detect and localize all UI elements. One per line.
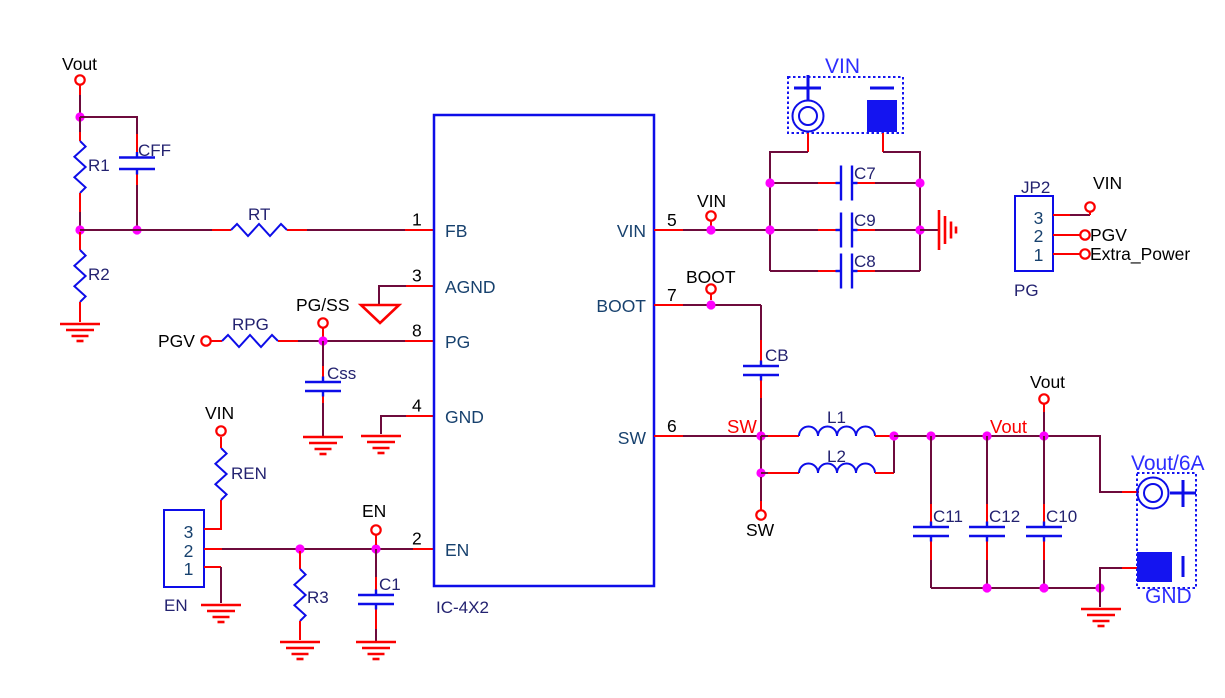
svg-text:Css: Css bbox=[327, 364, 356, 383]
pad square VIN- bbox=[867, 100, 897, 132]
svg-text:VIN: VIN bbox=[825, 55, 860, 78]
svg-text:C11: C11 bbox=[933, 507, 963, 526]
svg-text:L1: L1 bbox=[827, 408, 846, 427]
red stub into Vout jack bbox=[1122, 491, 1139, 493]
ground below pin4 bbox=[361, 436, 401, 453]
wire EN pin3 to REN bbox=[204, 500, 221, 529]
wire EN pin1 to ground bbox=[204, 567, 221, 603]
wire VIN- down bbox=[883, 133, 920, 271]
svg-text:Extra_Power: Extra_Power bbox=[1090, 244, 1190, 265]
wire SW down to L2 bbox=[760, 436, 762, 473]
svg-text:GND: GND bbox=[1145, 585, 1192, 608]
junction R3 node bbox=[295, 544, 304, 553]
junction rail C10 bbox=[1039, 431, 1048, 440]
svg-text:1: 1 bbox=[1034, 245, 1044, 265]
wire PGV to RPG bbox=[211, 340, 222, 342]
junction rail C12 bbox=[982, 431, 991, 440]
wire JP2 pin2 PGV bbox=[1053, 225, 1127, 245]
pin 1 FB bbox=[412, 210, 467, 242]
junction gnd tap bbox=[1095, 583, 1104, 592]
svg-text:C1: C1 bbox=[379, 575, 401, 594]
svg-text:SW: SW bbox=[746, 520, 775, 540]
svg-text:3: 3 bbox=[184, 522, 194, 542]
node PGV terminal bbox=[158, 331, 211, 351]
pad square GND bbox=[1137, 552, 1172, 582]
svg-text:5: 5 bbox=[667, 210, 677, 230]
wire RPG to pin PG bbox=[278, 340, 434, 342]
svg-text:7: 7 bbox=[667, 285, 677, 305]
wire ground rail bottom bbox=[931, 587, 1100, 589]
node EN terminal bbox=[362, 501, 386, 545]
junction rail L bbox=[926, 431, 935, 440]
capacitor C11 bbox=[913, 436, 963, 588]
svg-text:CFF: CFF bbox=[138, 141, 171, 160]
wire to CFF branch bbox=[80, 117, 137, 157]
junction PG node bbox=[318, 336, 327, 345]
node Vout terminal top-right bbox=[1030, 372, 1065, 436]
svg-text:8: 8 bbox=[412, 321, 422, 341]
node VIN terminal JP2 bbox=[1085, 173, 1122, 212]
resistor R3 bbox=[294, 551, 328, 640]
pin 7 BOOT bbox=[596, 285, 676, 316]
pin 5 VIN bbox=[617, 210, 677, 241]
svg-text:PG: PG bbox=[445, 332, 470, 352]
wire FB node to RT bbox=[80, 229, 231, 231]
connector Vout/6A block bbox=[1131, 452, 1205, 588]
svg-text:Vout: Vout bbox=[62, 54, 97, 74]
capacitor Css bbox=[305, 341, 356, 436]
svg-text:1: 1 bbox=[412, 210, 422, 230]
node BOOT terminal bbox=[686, 267, 736, 300]
svg-text:FB: FB bbox=[445, 221, 467, 241]
resistor R2 bbox=[74, 232, 109, 322]
node PG/SS terminal bbox=[296, 295, 350, 338]
resistor R1 bbox=[74, 117, 109, 230]
svg-text:L2: L2 bbox=[827, 447, 846, 466]
ground below R2 bbox=[60, 324, 100, 341]
wire to GND pad bbox=[1100, 568, 1139, 588]
svg-text:1: 1 bbox=[184, 559, 194, 579]
capacitor C9 bbox=[770, 211, 920, 248]
svg-text:GND: GND bbox=[445, 407, 484, 427]
junction FB node left bbox=[75, 225, 84, 234]
capacitor C1 bbox=[358, 549, 401, 641]
capacitor C12 bbox=[969, 436, 1020, 588]
svg-text:C12: C12 bbox=[989, 507, 1020, 526]
connector EN J1 bbox=[164, 510, 204, 615]
svg-text:R2: R2 bbox=[88, 265, 110, 284]
svg-text:2: 2 bbox=[1034, 226, 1044, 246]
svg-text:RT: RT bbox=[248, 205, 270, 224]
wire JP2 pin3 to VIN bbox=[1053, 212, 1090, 215]
wire Vout rail bbox=[894, 436, 1122, 492]
pin 4 GND bbox=[412, 396, 484, 428]
junction L2 node bbox=[756, 468, 765, 477]
junction BOOT bbox=[706, 300, 715, 309]
wire pin4 GND bbox=[381, 416, 434, 434]
minus symbol bbox=[870, 87, 894, 90]
wire SW down to terminal bbox=[760, 477, 762, 510]
svg-text:EN: EN bbox=[445, 540, 469, 560]
svg-text:PGV: PGV bbox=[158, 331, 195, 351]
node SW terminal bbox=[746, 510, 775, 540]
junction C1 node bbox=[371, 544, 380, 553]
AGND triangle symbol bbox=[361, 305, 399, 323]
pin 6 SW bbox=[618, 416, 677, 448]
wire pin7 BOOT row bbox=[654, 304, 761, 306]
junction C9 right bbox=[915, 225, 924, 234]
junction C7 left bbox=[765, 178, 774, 187]
resistor REN bbox=[215, 437, 267, 500]
ground below EN pin1 bbox=[201, 605, 241, 622]
ground below Css bbox=[303, 437, 343, 454]
svg-text:PGV: PGV bbox=[1090, 225, 1127, 245]
resistor RPG bbox=[222, 315, 278, 347]
wire pin3 AGND bbox=[379, 286, 434, 304]
wire pin5 VIN row bbox=[654, 229, 770, 231]
wire RT to pin FB bbox=[287, 229, 434, 231]
svg-text:3: 3 bbox=[412, 266, 422, 286]
svg-text:R3: R3 bbox=[307, 588, 329, 607]
junction L1 L2 output bbox=[889, 431, 898, 440]
jack circle VIN+ bbox=[793, 101, 824, 132]
svg-text:AGND: AGND bbox=[445, 277, 496, 297]
wire JP2 pin1 Extra_Power bbox=[1053, 244, 1190, 265]
minus symbol GND bbox=[1182, 556, 1185, 577]
svg-text:VIN: VIN bbox=[697, 191, 726, 211]
svg-text:3: 3 bbox=[1034, 208, 1044, 228]
junction C7 right bbox=[915, 178, 924, 187]
junction VIN bbox=[706, 225, 715, 234]
wire Vout to divider bbox=[79, 85, 81, 117]
node Vout terminal top-left bbox=[62, 54, 97, 85]
jack circle Vout bbox=[1138, 478, 1169, 509]
node VIN terminal pin5 bbox=[697, 191, 726, 226]
capacitor C10 bbox=[1026, 436, 1077, 588]
svg-text:VIN: VIN bbox=[617, 221, 646, 241]
svg-text:6: 6 bbox=[667, 416, 677, 436]
svg-text:JP2: JP2 bbox=[1021, 178, 1050, 197]
svg-text:RPG: RPG bbox=[232, 315, 269, 334]
svg-text:SW: SW bbox=[727, 416, 757, 437]
junction C9 left bbox=[765, 225, 774, 234]
inductor L1 bbox=[761, 408, 891, 436]
capacitor CB bbox=[743, 305, 789, 436]
svg-text:C8: C8 bbox=[854, 252, 876, 271]
svg-text:PG: PG bbox=[1014, 281, 1039, 300]
capacitor C8 bbox=[770, 252, 920, 289]
op-amp U1 IC-4X2 body bbox=[434, 115, 654, 617]
ground below rail bbox=[1081, 588, 1121, 626]
plus symbol bbox=[794, 75, 821, 101]
svg-text:Vout: Vout bbox=[990, 416, 1027, 437]
resistor RT bbox=[231, 205, 287, 236]
inductor L2 bbox=[761, 438, 894, 473]
svg-text:Vout/6A: Vout/6A bbox=[1131, 452, 1205, 475]
svg-text:CB: CB bbox=[765, 346, 789, 365]
junction gnd C10 bbox=[1039, 583, 1048, 592]
connector VIN input block bbox=[788, 55, 903, 133]
earth ground right of C9 bbox=[939, 210, 956, 250]
connector JP2 bbox=[1014, 178, 1053, 300]
svg-text:PG/SS: PG/SS bbox=[296, 295, 350, 315]
wire to earth ground bbox=[920, 229, 938, 231]
svg-text:SW: SW bbox=[618, 428, 647, 448]
ground below R3 bbox=[280, 642, 320, 659]
junction divider top bbox=[75, 112, 84, 121]
junction FB node CFF bbox=[132, 225, 141, 234]
svg-text:C7: C7 bbox=[854, 164, 876, 183]
pin 8 PG bbox=[412, 321, 470, 353]
svg-text:REN: REN bbox=[231, 464, 267, 483]
svg-text:VIN: VIN bbox=[205, 403, 234, 423]
pin 3 AGND bbox=[412, 266, 496, 298]
pin 2 EN bbox=[412, 529, 469, 561]
svg-text:BOOT: BOOT bbox=[596, 296, 646, 316]
svg-text:C10: C10 bbox=[1046, 507, 1077, 526]
svg-text:EN: EN bbox=[164, 596, 188, 615]
node VIN terminal above REN bbox=[205, 403, 234, 436]
svg-text:4: 4 bbox=[412, 396, 422, 416]
svg-text:R1: R1 bbox=[88, 156, 110, 175]
svg-text:2: 2 bbox=[412, 529, 422, 549]
plus symbol Vout bbox=[1170, 480, 1196, 507]
wire VIN+ down bbox=[770, 133, 808, 271]
svg-text:IC-4X2: IC-4X2 bbox=[436, 598, 489, 617]
svg-text:Vout: Vout bbox=[1030, 372, 1065, 392]
wire EN pin2 to IC bbox=[204, 548, 434, 550]
junction gnd C12 bbox=[982, 583, 991, 592]
svg-text:EN: EN bbox=[362, 501, 386, 521]
svg-text:C9: C9 bbox=[854, 211, 876, 230]
capacitor C7 bbox=[770, 164, 920, 201]
svg-text:VIN: VIN bbox=[1093, 173, 1122, 193]
svg-text:2: 2 bbox=[184, 541, 194, 561]
ground below C1 bbox=[356, 642, 396, 659]
wire pin6 SW row bbox=[654, 435, 761, 437]
junction SW node bbox=[756, 431, 765, 440]
capacitor CFF bbox=[119, 141, 171, 230]
